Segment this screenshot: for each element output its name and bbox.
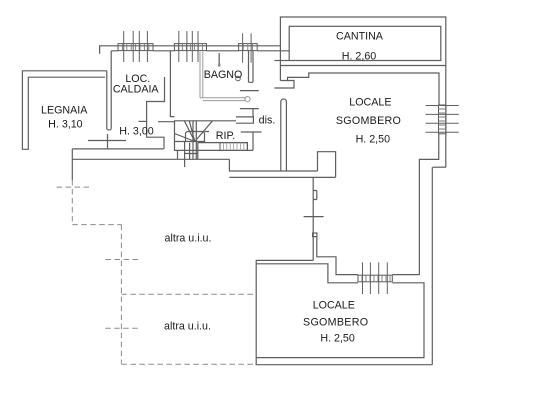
svg-text:LOCALE: LOCALE	[313, 300, 355, 312]
svg-text:SGOMBERO: SGOMBERO	[303, 317, 368, 329]
svg-text:H. 2,50: H. 2,50	[320, 333, 355, 345]
svg-text:LOCALE: LOCALE	[349, 97, 391, 109]
svg-text:altra u.i.u.: altra u.i.u.	[165, 232, 212, 244]
svg-text:BAGNO: BAGNO	[204, 69, 243, 81]
svg-text:dis.: dis.	[259, 115, 276, 127]
svg-text:H. 2,50: H. 2,50	[356, 134, 391, 146]
svg-text:altra u.i.u.: altra u.i.u.	[164, 320, 211, 332]
svg-text:CALDAIA: CALDAIA	[113, 83, 160, 95]
svg-text:CANTINA: CANTINA	[336, 31, 384, 43]
svg-text:H. 3,10: H. 3,10	[48, 118, 83, 130]
svg-text:SGOMBERO: SGOMBERO	[336, 115, 401, 127]
svg-text:H. 2,60: H. 2,60	[342, 51, 377, 63]
svg-text:RIP.: RIP.	[216, 130, 235, 142]
svg-text:LEGNAIA: LEGNAIA	[41, 105, 88, 117]
svg-text:H. 3,00: H. 3,00	[119, 126, 154, 138]
